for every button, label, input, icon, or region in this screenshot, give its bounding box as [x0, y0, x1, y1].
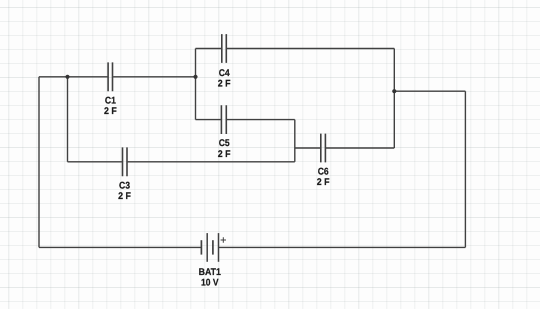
label C5 — [218, 138, 231, 160]
svg-text:C5: C5 — [219, 138, 231, 149]
capacitor C1 — [108, 62, 112, 91]
svg-text:C3: C3 — [119, 181, 130, 192]
wire: C1 row left — [39, 76, 108, 78]
svg-text:2 F: 2 F — [118, 191, 131, 202]
label BAT1 — [199, 267, 222, 288]
wire: right-mid vertical from C4 row to C6 row — [393, 49, 395, 149]
label C3 — [118, 181, 131, 203]
svg-text:10 V: 10 V — [201, 277, 219, 288]
wire: C3 row right — [128, 161, 295, 163]
node C junction dot — [392, 89, 396, 93]
capacitor C6 — [321, 134, 326, 163]
wire: C5 row left — [196, 119, 221, 121]
wire: right vertical — [464, 91, 466, 247]
wire: C6 row right — [326, 147, 394, 149]
svg-text:C6: C6 — [318, 166, 329, 177]
wire: bottom left segment to battery — [39, 246, 201, 248]
svg-text:2 F: 2 F — [317, 177, 330, 188]
wire: bottom right segment from battery — [219, 246, 466, 248]
wire: left vertical — [38, 77, 40, 248]
wire: node B vertical — [195, 49, 197, 120]
svg-text:2 F: 2 F — [218, 78, 231, 89]
svg-text:2 F: 2 F — [104, 106, 117, 117]
svg-text:C1: C1 — [105, 95, 117, 106]
wire: C3 row left — [68, 161, 122, 163]
capacitor C5 — [221, 105, 226, 134]
capacitor C4 — [222, 34, 227, 63]
label C6 — [317, 166, 330, 188]
svg-text:2 F: 2 F — [218, 149, 231, 160]
wire: mid vertical joining C5 and C3 rows — [294, 120, 296, 162]
wire: node C to right vertical — [394, 90, 465, 92]
battery plus sign — [221, 237, 226, 242]
wire: C1 row right — [113, 76, 195, 78]
node A junction dot — [65, 75, 69, 79]
wire: C5 row right — [227, 119, 295, 121]
battery BAT1 — [201, 233, 226, 262]
wire: C4 row left — [196, 48, 222, 50]
node B junction dot — [193, 75, 197, 79]
wire: C4 row right — [227, 48, 394, 50]
wire: C6 row left — [295, 147, 320, 149]
label C4 — [218, 68, 231, 89]
wire: branch from node A down — [67, 77, 69, 162]
label C1 — [104, 95, 117, 117]
capacitor C3 — [123, 147, 128, 176]
